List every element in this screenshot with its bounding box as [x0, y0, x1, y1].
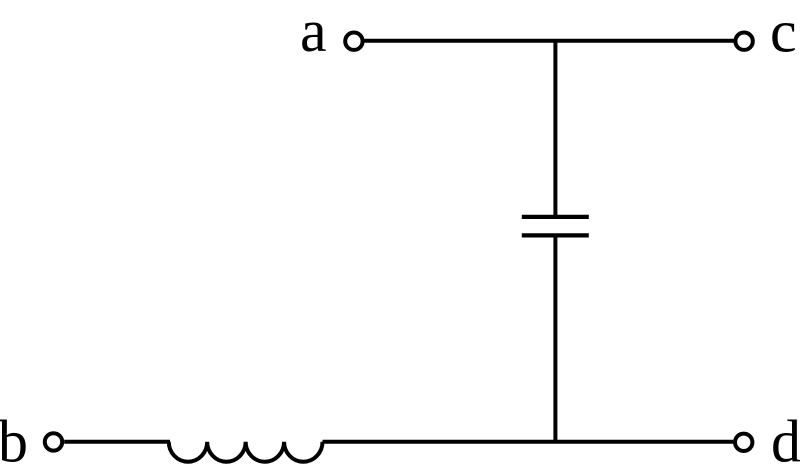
terminal a: [345, 33, 362, 50]
svg-text:d: d: [771, 409, 800, 475]
wire bottom right (inductor to d): [323, 440, 734, 444]
svg-text:b: b: [0, 409, 28, 475]
svg-text:a: a: [300, 0, 327, 64]
wire bottom left (b to inductor): [64, 440, 170, 444]
wire vertical lower (capacitor to bottom wire): [553, 235, 557, 441]
capacitor C: [522, 217, 589, 236]
wire vertical upper (top wire to capacitor): [553, 41, 557, 217]
node c label: [770, 0, 797, 65]
node b label: [0, 409, 28, 475]
node d label: [771, 409, 800, 475]
inductor L: [169, 442, 323, 462]
terminal d: [735, 434, 752, 451]
terminal b: [45, 433, 62, 450]
wire top (a to c): [365, 39, 734, 43]
node a label: [300, 0, 327, 64]
terminal c: [735, 33, 752, 50]
svg-text:c: c: [770, 0, 797, 65]
